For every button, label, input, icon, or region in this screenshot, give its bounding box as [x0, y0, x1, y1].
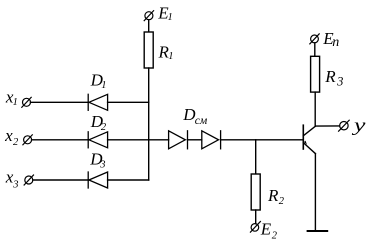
terminal Ep	[310, 34, 319, 44]
transistor VT emitter arrow	[304, 141, 307, 145]
terminal E2	[250, 222, 260, 233]
svg-text:1: 1	[101, 80, 106, 91]
svg-text:п: п	[332, 35, 339, 50]
svg-text:2: 2	[13, 137, 19, 148]
label x1	[5, 88, 18, 109]
wire D2 to Dcm	[108, 139, 169, 141]
svg-text:2: 2	[279, 196, 285, 207]
svg-text:x: x	[4, 126, 13, 145]
resistor R3	[311, 56, 320, 92]
wire between Dcm diodes	[188, 139, 202, 141]
diode D2	[88, 132, 107, 148]
wire emitter down	[314, 154, 316, 231]
label R1	[158, 43, 174, 63]
label R3	[324, 67, 343, 89]
transistor VT base bar	[302, 125, 304, 149]
label R2	[267, 186, 285, 207]
wire D1 to bus	[108, 101, 149, 103]
svg-text:2: 2	[101, 122, 107, 133]
label E2	[260, 220, 278, 242]
label E1	[157, 4, 172, 23]
diode D1	[88, 94, 107, 110]
terminal x3	[24, 175, 33, 185]
svg-text:y: y	[351, 115, 365, 135]
wire Ep to R3	[314, 43, 316, 57]
diode Dcm-a	[169, 131, 188, 149]
svg-text:E: E	[260, 220, 272, 239]
svg-text:R: R	[267, 186, 279, 205]
label D3	[89, 149, 105, 170]
transistor VT collector	[303, 126, 315, 136]
transistor VT emitter	[303, 143, 315, 154]
wire vertical bus	[148, 68, 150, 180]
wire R2 stem	[255, 140, 257, 174]
wire D3 to bus	[108, 179, 149, 181]
wire E1 to R1	[148, 20, 150, 32]
label D2	[90, 112, 107, 133]
diode D3	[88, 172, 107, 188]
wire R2 to E2	[255, 210, 257, 224]
svg-text:1: 1	[168, 51, 173, 62]
terminal E1	[144, 11, 153, 21]
label D1	[90, 70, 107, 91]
terminal x2	[23, 135, 32, 145]
svg-text:см: см	[195, 115, 208, 127]
wire collector node to y terminal	[315, 125, 339, 127]
wire x3 to D3	[33, 179, 88, 181]
svg-text:2: 2	[272, 230, 278, 241]
wire x1 to D1	[31, 101, 89, 103]
svg-text:3: 3	[12, 179, 18, 190]
label y	[351, 115, 365, 135]
svg-text:3: 3	[336, 75, 343, 89]
svg-text:1: 1	[13, 97, 18, 108]
ground	[308, 230, 328, 232]
resistor R1	[144, 32, 153, 68]
wire x2 to D2	[32, 139, 89, 141]
label x3	[5, 168, 19, 191]
wire R3 to collector node	[314, 92, 316, 126]
resistor R2	[251, 174, 260, 210]
svg-text:3: 3	[99, 160, 105, 171]
label x2	[4, 126, 19, 148]
svg-text:R: R	[324, 67, 336, 86]
svg-text:1: 1	[168, 12, 173, 23]
wire Dcm to base	[221, 139, 304, 141]
diode Dcm-b	[202, 131, 221, 149]
label Dcm	[182, 105, 208, 127]
terminal x1	[22, 97, 31, 107]
terminal y	[339, 120, 350, 131]
label Ep	[322, 29, 339, 50]
